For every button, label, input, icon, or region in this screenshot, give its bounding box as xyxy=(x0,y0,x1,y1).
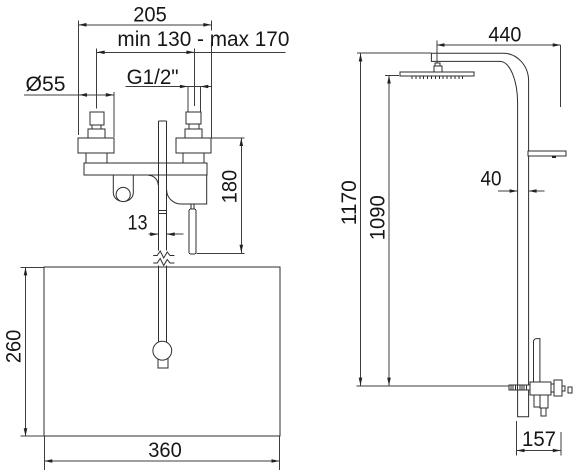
svg-text:1090: 1090 xyxy=(366,195,389,240)
dimension 205 xyxy=(79,3,212,138)
label G1/2 inch with leader and extension lines xyxy=(126,66,212,112)
hand shower wand (front view) xyxy=(189,209,196,254)
dimension diameter 55 xyxy=(24,73,114,137)
svg-text:13: 13 xyxy=(128,212,148,235)
spout body right block with fillet xyxy=(167,175,207,204)
hand shower holder square tip xyxy=(158,352,168,368)
dimension 1170 xyxy=(338,54,362,386)
svg-text:min 130 - max 170: min 130 - max 170 xyxy=(117,28,289,51)
shower head slab xyxy=(400,72,474,76)
dimension 1170 extension line along arm top xyxy=(357,52,432,54)
dimension min 130 - max 170 xyxy=(97,28,290,109)
svg-text:157: 157 xyxy=(522,428,556,451)
svg-text:G1/2": G1/2" xyxy=(127,66,179,89)
shower column with elbow (side view) xyxy=(431,53,528,417)
diverter knob circle xyxy=(116,187,130,201)
shelf xyxy=(528,151,566,158)
valve knob xyxy=(554,380,562,396)
right handle knob xyxy=(176,112,211,163)
dimension 157 xyxy=(517,421,561,456)
floor reference line xyxy=(356,385,511,387)
svg-text:1170: 1170 xyxy=(338,180,361,225)
mixer valve body xyxy=(530,382,551,395)
shower head fitting xyxy=(434,63,442,72)
valve stub xyxy=(562,386,565,391)
dimension 440 xyxy=(437,24,561,108)
dimension 360 xyxy=(44,436,279,470)
svg-text:360: 360 xyxy=(148,439,182,462)
left handle knob xyxy=(78,112,114,163)
svg-text:205: 205 xyxy=(133,3,167,26)
hand shower wand in holder (side view) xyxy=(534,339,540,383)
valve lower outlet B xyxy=(540,395,548,416)
dimension 13 xyxy=(128,212,184,237)
svg-text:Ø55: Ø55 xyxy=(26,73,66,96)
slide pipe lower section xyxy=(158,266,166,343)
valve lower outlet A xyxy=(534,395,542,407)
hand shower holder circle xyxy=(153,341,172,360)
break symbol zigzag xyxy=(153,251,174,266)
valve handle tip xyxy=(568,387,572,393)
slide pipe upper section xyxy=(158,121,166,250)
svg-text:40: 40 xyxy=(481,168,502,191)
svg-text:260: 260 xyxy=(2,330,25,364)
hose threaded connector xyxy=(509,385,530,390)
dimension 1090 xyxy=(366,75,399,385)
dimension 180 xyxy=(197,138,245,254)
dimension 40 xyxy=(481,168,545,193)
svg-text:440: 440 xyxy=(488,24,521,47)
hand shower nipple (front view) xyxy=(191,204,194,209)
bar-to-pipe left fillet xyxy=(149,175,159,185)
dimension 260 xyxy=(2,267,44,436)
shower head nozzles xyxy=(412,76,462,79)
diverter housing xyxy=(113,175,133,201)
svg-text:180: 180 xyxy=(218,170,241,204)
basin rectangle xyxy=(44,267,280,436)
valve right spacer xyxy=(551,384,554,392)
mounting bar xyxy=(84,163,207,175)
